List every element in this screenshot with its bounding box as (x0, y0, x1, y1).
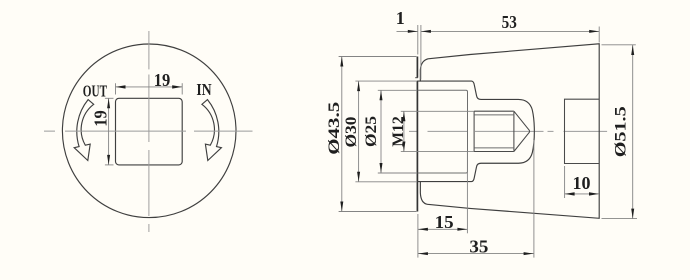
dim 53: arrowheads (421, 30, 431, 33)
svg-text:OUT: OUT (83, 81, 108, 100)
centerline vertical (left view) (148, 31, 150, 232)
dim Ø25: arrowheads (380, 90, 383, 100)
svg-text:Ø30: Ø30 (343, 117, 360, 148)
svg-text:M12: M12 (390, 116, 407, 147)
M12 stud chamfered tip (514, 111, 530, 151)
dim M12: extension lines (401, 110, 474, 112)
dim Ø30: extension lines (355, 80, 417, 82)
dim Ø30: dimension line (358, 81, 360, 182)
thread minor lines (474, 114, 514, 116)
dim Ø25: dimension line (380, 90, 382, 173)
trimmed edge tick on disc (415, 77, 418, 79)
dim Ø51.5: extension lines (602, 44, 636, 46)
dim 35: extension lines (417, 214, 419, 258)
svg-text:IN: IN (196, 80, 212, 99)
dim 35: arrowheads (418, 252, 428, 255)
rotation arrow right (IN direction) (202, 100, 222, 161)
dim 1: extension lines (417, 25, 419, 55)
centerline horizontal (left view) (44, 130, 253, 132)
dim 19 horizontal: dimension line (116, 86, 183, 88)
dim 19 vertical: dimension line (108, 98, 110, 165)
dim Ø51.5: dimension line (632, 45, 634, 219)
dim 10: extension line (564, 166, 566, 198)
svg-text:10: 10 (573, 173, 591, 193)
dim 1: arrowhead (outside) (408, 30, 418, 33)
knob outline circle (62, 44, 236, 218)
collar Ø30 cup with flare into hub dome (418, 81, 535, 182)
dim Ø43.5: dimension line (341, 57, 343, 212)
knob body trapezoid outline (420, 44, 599, 219)
svg-text:19: 19 (154, 70, 171, 90)
square drive recess 19x19 (116, 98, 183, 165)
dim 15: extension line (466, 152, 468, 233)
svg-text:19: 19 (90, 110, 110, 127)
dim 53: dimension line (421, 30, 599, 32)
dim 19 vertical: arrowheads (107, 98, 110, 108)
svg-text:Ø43.5: Ø43.5 (326, 102, 343, 155)
svg-text:53: 53 (502, 12, 517, 32)
dim Ø51.5: arrowheads (631, 45, 634, 55)
M12 stud thread major outline (474, 111, 514, 151)
dim Ø43.5: extension lines (339, 56, 417, 58)
dim 10: dimension line (565, 193, 599, 195)
dim 15: dimension line (418, 228, 468, 230)
svg-text:Ø51.5: Ø51.5 (612, 106, 629, 157)
dim Ø25: extension lines (378, 89, 417, 91)
dim 19 vertical: extension lines (105, 97, 114, 99)
dim Ø43.5: arrowheads (340, 57, 343, 67)
svg-text:15: 15 (435, 212, 454, 232)
dim 35: dimension line (418, 253, 534, 255)
dim 10: arrowheads (565, 192, 575, 195)
dim 1: dimension line tail (397, 30, 418, 32)
dim M12: arrowheads (402, 111, 405, 121)
svg-text:Ø25: Ø25 (363, 116, 380, 147)
bushing Ø25 (418, 90, 468, 173)
dim 53: extension line right (598, 27, 600, 43)
rotation arrow left (OUT direction) (74, 100, 94, 161)
recess on knob back face (10 deep) (565, 99, 600, 163)
dim Ø30: arrowheads (357, 81, 360, 91)
dim 15: arrowheads (418, 228, 428, 231)
dim 19 horizontal: arrowheads (116, 85, 126, 88)
dim 19 horizontal: extension lines (115, 83, 117, 94)
mounting disc Ø43.5 (thin washer, edge-on) (416, 57, 418, 212)
svg-text:35: 35 (469, 236, 488, 256)
centerline horizontal (right view) (409, 130, 608, 132)
dim M12: dimension line (403, 111, 405, 151)
svg-text:1: 1 (396, 8, 405, 28)
